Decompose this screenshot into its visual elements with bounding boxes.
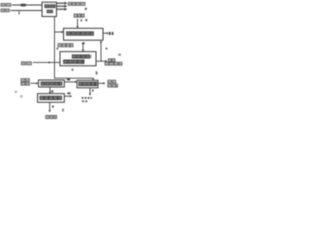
arrowhead output A right bbox=[107, 32, 109, 34]
label dots below block R row 1 bbox=[82, 97, 92, 99]
arrowhead into block P left bbox=[36, 82, 38, 84]
wire horizontal to block R bbox=[54, 77, 93, 79]
label 31 right of block A bbox=[109, 32, 114, 35]
label tick above Q output bbox=[67, 92, 70, 94]
block P (display box) bbox=[39, 80, 65, 87]
wire output block Q right bbox=[64, 95, 70, 97]
block B (middle box two text rows) bbox=[60, 52, 96, 66]
wire branch into block A left bbox=[55, 31, 62, 33]
label input L1 (top-left) bbox=[1, 4, 11, 7]
arrowhead output block R bbox=[103, 82, 105, 84]
label block R text bbox=[79, 82, 97, 86]
label right of block B output row 2 bbox=[105, 62, 122, 65]
wire input 2 bbox=[11, 10, 43, 12]
wire main vertical from block U1 bbox=[54, 17, 56, 79]
label tick below wire 2 bbox=[19, 11, 20, 14]
label block B text row 2 bbox=[64, 60, 85, 64]
wire W2 into block B left bbox=[33, 61, 60, 63]
arrowhead into block A top bbox=[76, 26, 78, 28]
arrowhead into block Q top bbox=[49, 92, 51, 94]
arrowhead output B right bbox=[105, 60, 107, 62]
wire below block R bbox=[89, 88, 91, 94]
label block P text bbox=[41, 82, 62, 85]
label faint marks bottom-left bbox=[15, 91, 23, 98]
arrowhead A1 bbox=[64, 2, 67, 5]
label small mark right of label bbox=[85, 19, 87, 21]
label tick on wire 1 bbox=[21, 4, 26, 7]
wire output A2 bbox=[57, 5, 66, 7]
label above node A input wire bbox=[74, 14, 84, 17]
wire input 1 bbox=[12, 4, 42, 6]
arrowhead output block Q bbox=[70, 95, 72, 97]
arrowhead into block B top bbox=[82, 50, 84, 52]
wire block P to block Q bbox=[49, 87, 51, 92]
label tick right of main vertical wire bbox=[57, 48, 59, 50]
label U1 text row 1 bbox=[45, 5, 55, 8]
label tick right of P-Q wire bbox=[51, 90, 53, 92]
block A (wide middle box) bbox=[64, 28, 104, 40]
label tick above P-R wire bbox=[67, 79, 70, 81]
wire vertical into block A top bbox=[77, 19, 79, 27]
label tick above horizontal wire bbox=[72, 69, 74, 71]
arrowhead A2 bbox=[64, 5, 67, 8]
label tick right of Q down wire bbox=[52, 106, 54, 108]
label left of wire W2 bbox=[21, 62, 31, 65]
label dots below block R row 2 bbox=[82, 100, 87, 102]
label faint dots right side bbox=[118, 54, 121, 56]
wire output A3 bbox=[57, 8, 66, 10]
label block B text row 1 bbox=[72, 55, 90, 58]
label input L2 (top-left) bbox=[1, 9, 9, 12]
wire feedback vertical up to block A bbox=[100, 42, 102, 61]
block R (right lower box) bbox=[77, 80, 98, 88]
label row right of output arrows bbox=[68, 2, 85, 5]
wire below block Q bbox=[49, 102, 51, 110]
arrowhead into block R left bbox=[75, 81, 77, 83]
arrowhead A3 bbox=[64, 8, 67, 11]
label small mark below label row bbox=[85, 8, 87, 10]
block Q (bottom box) bbox=[38, 94, 65, 103]
block U1 (top signal box) bbox=[42, 2, 57, 16]
wire into block P left bbox=[31, 82, 37, 84]
label block Q text bbox=[40, 96, 62, 100]
label tick right of feedback arrow bbox=[106, 48, 108, 50]
arrowhead below block R bbox=[89, 93, 91, 95]
wire vertical drop into block R bbox=[92, 77, 94, 80]
arrowhead into block A left bbox=[61, 31, 63, 33]
label left of block P input row 1 bbox=[21, 79, 29, 82]
label above block B bbox=[58, 44, 73, 47]
label right of block R row 1 bbox=[108, 80, 116, 83]
arrowhead below block Q bbox=[49, 110, 51, 112]
wire output from block A right bbox=[103, 32, 107, 34]
label text below Q down arrow bbox=[46, 115, 57, 118]
label tick at top of block B stub bbox=[82, 42, 85, 44]
wire output from block B right bbox=[96, 60, 106, 62]
arrowhead into block B left bbox=[49, 61, 51, 63]
label faint mark left of bottom area bbox=[62, 109, 64, 112]
label U1 text row 2 bbox=[47, 10, 53, 13]
label block A text bbox=[67, 32, 94, 36]
label right of block R row 2 bbox=[108, 84, 118, 87]
label tick right of R down wire bbox=[92, 90, 94, 92]
label left of block P input row 2 bbox=[21, 82, 29, 85]
wire block P to block R bbox=[64, 81, 75, 83]
arrowhead feedback into block A bottom bbox=[100, 40, 102, 42]
wire stub into block B top bbox=[82, 45, 84, 50]
label tick right of vertical wire bbox=[81, 19, 82, 21]
wire output block R right bbox=[98, 82, 104, 84]
wire output A1 bbox=[57, 2, 66, 4]
label right of block B output row 1 bbox=[108, 59, 115, 62]
arrowhead into block R top bbox=[92, 78, 94, 80]
label tick above corner near block R bbox=[96, 71, 98, 74]
